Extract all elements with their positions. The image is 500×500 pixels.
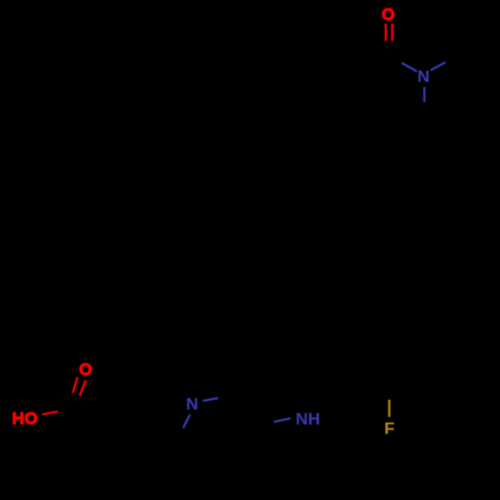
svg-text:O: O xyxy=(382,5,395,24)
svg-text:N: N xyxy=(186,395,198,414)
svg-text:NH: NH xyxy=(296,410,321,429)
svg-text:N: N xyxy=(417,67,429,86)
svg-text:O: O xyxy=(79,360,92,379)
svg-text:HO: HO xyxy=(12,409,38,428)
svg-text:F: F xyxy=(384,419,394,438)
